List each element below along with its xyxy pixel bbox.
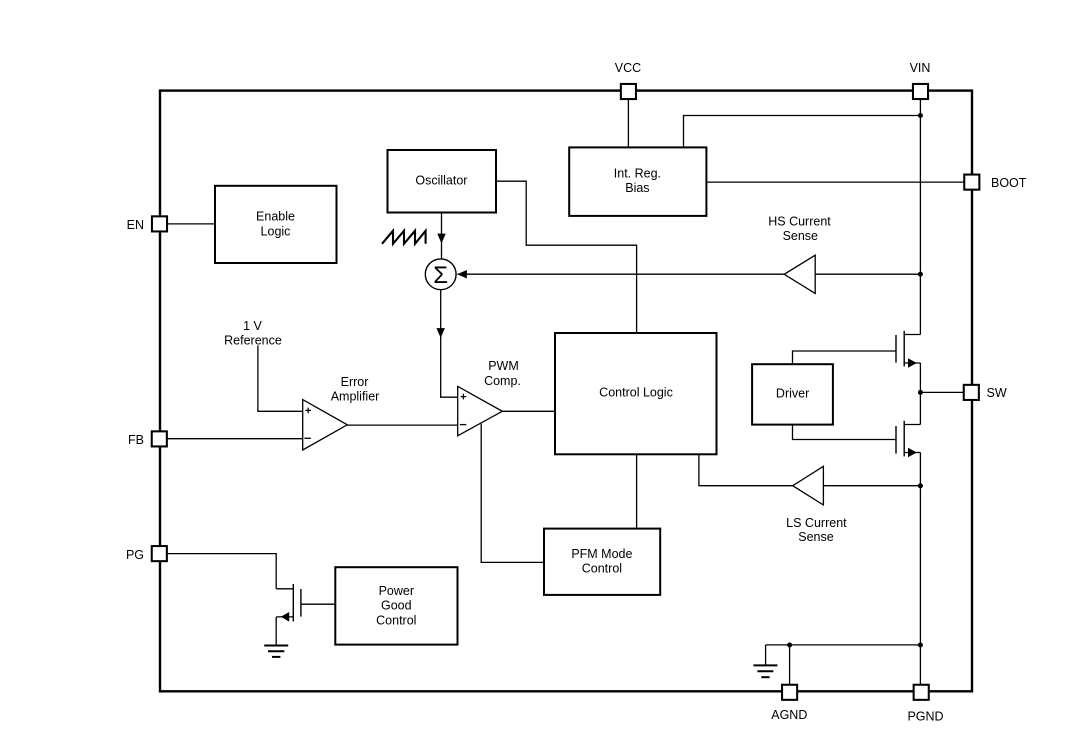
pin AGND: [771, 685, 807, 722]
arrowhead into summing node from Oscillator: [437, 234, 445, 244]
pin EN: [127, 216, 167, 232]
wire 1 V reference to error amplifier plus input: [258, 346, 303, 412]
sawtooth waveform symbol: [382, 231, 426, 244]
svg-text:Int. Reg.: Int. Reg.: [614, 166, 661, 180]
wire EN pin to Enable Logic: [168, 223, 215, 225]
block Enable Logic: [215, 186, 337, 263]
amplifier LS Current Sense: [786, 466, 847, 544]
svg-text:SW: SW: [987, 386, 1007, 400]
junction VIN rail / Int. Reg. Bias: [918, 113, 923, 118]
svg-text:Power: Power: [379, 584, 414, 598]
wire FB pin to error amplifier minus input: [168, 438, 303, 440]
transistor LS MOSFET: [896, 421, 920, 458]
svg-text:LS Current: LS Current: [786, 516, 847, 530]
svg-text:Sense: Sense: [798, 530, 833, 544]
wire VIN pin down to HS drain: [919, 99, 921, 334]
wire Driver to LS gate: [793, 425, 896, 440]
wire HS sense output to summing node: [458, 273, 785, 275]
wire LS sense input to PGND rail: [823, 485, 920, 487]
wire VIN rail to HS sense input: [815, 273, 920, 275]
svg-text:Error: Error: [341, 375, 369, 389]
block PFM Mode Control: [544, 529, 660, 595]
pin FB: [128, 431, 167, 447]
svg-text:Comp.: Comp.: [484, 374, 521, 388]
wire ground net to PGND rail: [766, 644, 921, 646]
block Driver: [752, 364, 833, 424]
svg-text:FB: FB: [128, 433, 144, 447]
svg-text:PWM: PWM: [488, 359, 519, 373]
svg-text:Driver: Driver: [776, 387, 809, 401]
wire Oscillator bottom to summing node: [441, 213, 443, 259]
svg-text:Control Logic: Control Logic: [599, 385, 673, 399]
svg-text:HS Current: HS Current: [768, 215, 831, 229]
svg-text:Control: Control: [376, 613, 416, 627]
wire Control Logic to PFM Mode Control: [636, 454, 638, 528]
value label 1 V Reference: [224, 319, 282, 347]
wire PG transistor source to ground: [275, 617, 277, 645]
junction PGND rail / LS sense: [918, 483, 923, 488]
amplifier HS Current Sense: [768, 215, 831, 294]
pin SW: [964, 385, 1007, 400]
pin VIN: [910, 61, 931, 99]
svg-text:Control: Control: [582, 562, 622, 576]
wire Oscillator output to Control Logic: [496, 181, 637, 333]
wire VCC pin to Int. Reg. Bias: [627, 100, 629, 148]
block Power Good Control: [335, 567, 457, 644]
pin PG: [126, 546, 167, 562]
wire AGND pin to ground net: [789, 645, 791, 684]
svg-text:PG: PG: [126, 548, 144, 562]
svg-text:VIN: VIN: [910, 61, 931, 75]
wire error amplifier output to PWM comparator minus input: [347, 424, 457, 426]
junction PGND rail / ground net: [918, 643, 923, 648]
svg-text:VCC: VCC: [615, 61, 641, 75]
wire HS source to LS drain: [919, 363, 921, 425]
svg-text:Reference: Reference: [224, 333, 282, 347]
pin PGND: [907, 685, 943, 724]
block Oscillator: [388, 150, 497, 213]
arrowhead on summing output: [437, 328, 445, 338]
pin VCC: [615, 61, 641, 99]
svg-text:BOOT: BOOT: [991, 176, 1027, 190]
wire Driver to HS gate: [793, 351, 896, 364]
svg-text:Bias: Bias: [625, 181, 649, 195]
wire Int. Reg. Bias to BOOT pin: [707, 181, 964, 183]
svg-text:PFM Mode: PFM Mode: [571, 547, 632, 561]
IC boundary box: [160, 91, 972, 692]
wire LS source down to PGND pin: [919, 453, 921, 685]
summing junction: [425, 259, 456, 290]
svg-text:Sense: Sense: [783, 229, 818, 243]
wire PG pin to PG transistor drain: [168, 554, 277, 589]
ground at PG transistor: [264, 646, 288, 657]
transistor HS MOSFET: [896, 331, 920, 368]
op-amp Error Amplifier: [303, 375, 380, 450]
transistor PG MOSFET: [276, 584, 301, 622]
svg-text:Logic: Logic: [261, 225, 291, 239]
wire PWM comparator to PFM Mode Control: [481, 424, 544, 563]
svg-text:1 V: 1 V: [243, 319, 262, 333]
arrowhead into summing node from HS sense: [457, 270, 467, 278]
block Int. Reg. Bias: [569, 147, 706, 216]
junction VIN rail / HS sense: [918, 272, 923, 277]
pin BOOT: [964, 175, 1027, 190]
svg-text:Amplifier: Amplifier: [331, 389, 380, 403]
wire Int. Reg. Bias top to VIN rail: [684, 116, 921, 148]
wire Power Good Control to PG transistor gate: [301, 603, 335, 605]
svg-text:Good: Good: [381, 599, 412, 613]
junction switch node SW: [918, 390, 923, 395]
ground at AGND: [754, 645, 778, 677]
svg-text:PGND: PGND: [907, 710, 943, 724]
wire PWM comparator output to Control Logic: [502, 410, 555, 412]
wire summing node to PWM comparator plus input: [441, 290, 458, 397]
svg-text:Σ: Σ: [433, 262, 448, 289]
svg-text:Oscillator: Oscillator: [415, 173, 467, 187]
block Control Logic: [555, 333, 717, 454]
svg-text:Enable: Enable: [256, 210, 295, 224]
svg-text:EN: EN: [127, 218, 144, 232]
wire switch node to SW pin: [920, 391, 963, 393]
wire Control Logic to LS sense output: [699, 454, 793, 485]
junction AGND / ground net: [787, 643, 792, 648]
svg-text:AGND: AGND: [771, 708, 807, 722]
comparator PWM Comp.: [458, 359, 521, 436]
